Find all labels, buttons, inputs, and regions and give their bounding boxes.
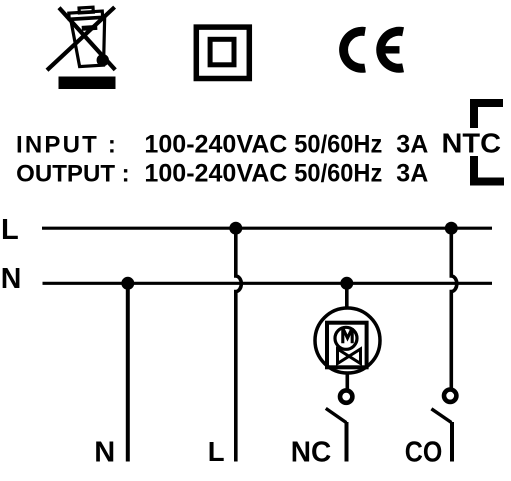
WEEE crossed-out wheelie bin symbol (47, 6, 116, 89)
wire N (horizontal) (43, 282, 493, 285)
wire NC terminal lower (345, 422, 349, 462)
svg-text:NTC: NTC (442, 127, 502, 158)
wire L (horizontal) (42, 227, 492, 230)
CO terminal circle (444, 390, 456, 402)
outer square (196, 27, 249, 78)
motor outer circle (315, 308, 380, 373)
wire CO terminal lower (450, 422, 454, 462)
valve bowtie (338, 349, 361, 364)
svg-text:50/60Hz: 50/60Hz (294, 130, 382, 158)
Class II double insulation symbol (196, 27, 249, 78)
svg-text:CO: CO (405, 437, 443, 469)
CO switch blade (431, 409, 451, 423)
motor inner square (327, 323, 367, 368)
wire below motor (345, 373, 349, 390)
svg-text:OUTPUT :: OUTPUT : (16, 161, 130, 188)
NC terminal circle (340, 390, 352, 402)
svg-text:NC: NC (291, 437, 332, 469)
NTC bracket bottom (470, 156, 504, 186)
svg-text:3A: 3A (396, 160, 428, 188)
NTC bracket top (470, 99, 503, 128)
svg-text:3A: 3A (396, 130, 428, 158)
motor-valve symbol M (315, 308, 380, 373)
bin inner bar (82, 25, 98, 31)
wire motor feed (vertical) (345, 283, 349, 308)
bin lid (69, 11, 103, 19)
svg-text:L: L (1, 214, 19, 246)
svg-text:N: N (1, 263, 22, 295)
motor M circle (335, 327, 357, 349)
wire CO feed (vertical with hop over N) (451, 228, 457, 388)
bin wheel (96, 54, 109, 67)
wire N terminal (vertical) (126, 283, 130, 461)
motor M letter (343, 328, 352, 343)
bin body (71, 17, 108, 66)
svg-text:100-240VAC: 100-240VAC (144, 130, 287, 158)
junction node on N at x=128 (121, 277, 134, 290)
junction node on N at x=347 (340, 277, 353, 290)
CE mark (339, 27, 404, 73)
CE letter C (339, 27, 366, 73)
cross line 1 (59, 8, 115, 70)
bin handle (79, 7, 93, 13)
svg-text:INPUT :: INPUT : (16, 131, 118, 158)
solid bar under bin (59, 77, 116, 90)
svg-text:L: L (208, 436, 225, 467)
wire L terminal (vertical with hop over N) (236, 228, 242, 461)
junction node on L at x=236 (229, 222, 242, 235)
CE letter E middle bar (384, 46, 400, 53)
CE letter E (376, 27, 404, 73)
cross line 2 (47, 7, 115, 70)
svg-text:50/60Hz: 50/60Hz (294, 160, 382, 188)
NC switch blade (326, 408, 347, 422)
inner square (210, 39, 234, 65)
junction node on L at x=450 (445, 222, 458, 235)
svg-text:100-240VAC: 100-240VAC (144, 160, 287, 188)
svg-text:N: N (94, 437, 115, 469)
